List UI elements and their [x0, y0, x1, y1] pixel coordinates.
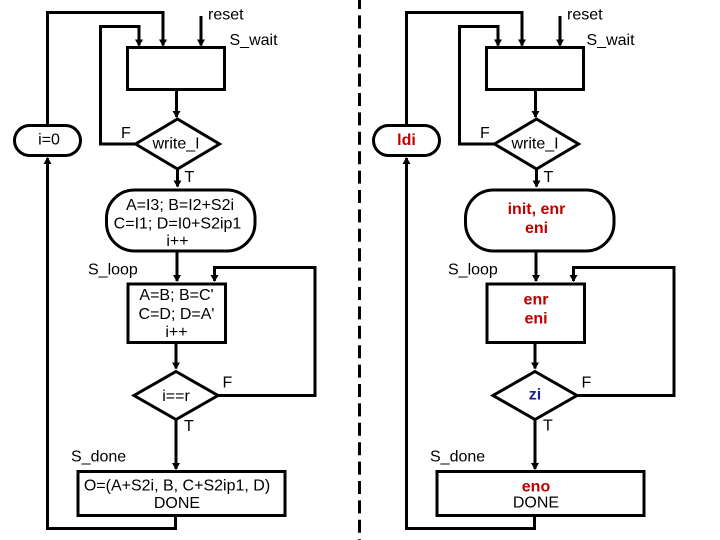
svg-text:eno: eno	[522, 479, 551, 496]
svg-text:F: F	[480, 125, 490, 142]
wire: i==r to S_done box	[175, 420, 178, 470]
decision diamond zi	[493, 372, 577, 420]
wire: zi to eno box	[534, 420, 537, 470]
wire: S_loop box to i==r	[175, 343, 178, 369]
svg-text:C=D; D=A': C=D; D=A'	[139, 306, 215, 323]
svg-text:S_wait: S_wait	[230, 32, 279, 49]
wire: reset arrow	[559, 16, 562, 46]
svg-text:F: F	[223, 375, 233, 392]
decision diamond write_I	[136, 119, 220, 169]
stadium init enr eni	[466, 190, 615, 251]
state box enr eni	[487, 284, 585, 343]
wire: F loop from write_I diamond left to S_wait top	[101, 27, 140, 145]
svg-text:T: T	[544, 169, 554, 186]
wire: reset arrow	[200, 16, 203, 46]
state box S_wait right	[487, 48, 584, 90]
svg-text:init, enr: init, enr	[508, 201, 566, 218]
stadium i=0	[15, 126, 81, 156]
wire: eno exit loop back to ldi	[407, 158, 535, 529]
state box S_loop	[128, 284, 226, 343]
svg-text:S_loop: S_loop	[448, 262, 498, 279]
wire: S_done exit loop back to i=0	[48, 158, 176, 529]
svg-text:ldi: ldi	[397, 132, 416, 149]
svg-text:i==r: i==r	[162, 388, 190, 405]
state box S_wait	[128, 48, 225, 90]
svg-text:DONE: DONE	[154, 495, 200, 512]
svg-text:reset: reset	[567, 7, 603, 24]
wire: enr box to zi diamond	[534, 343, 537, 369]
svg-text:i=0: i=0	[38, 132, 60, 149]
svg-text:F: F	[582, 375, 592, 392]
svg-text:A=I3; B=I2+S2i: A=I3; B=I2+S2i	[126, 197, 234, 214]
wire: stadium to S_loop box	[176, 251, 179, 281]
wire: write_I to init stadium	[535, 169, 538, 187]
decision diamond i==r	[134, 372, 218, 420]
svg-text:F: F	[121, 125, 131, 142]
wire: F loop from write_I diamond left to S_wait top	[460, 27, 499, 145]
svg-text:enr: enr	[524, 292, 549, 309]
wire: left loop from ldi top, up, right, down into S_wait	[407, 13, 523, 126]
svg-text:T: T	[543, 418, 553, 435]
svg-text:zi: zi	[529, 387, 541, 404]
state box S_done	[78, 472, 285, 516]
wire: S_wait to write_I	[534, 90, 537, 118]
svg-text:S_done: S_done	[430, 449, 485, 466]
svg-text:S_wait: S_wait	[587, 32, 636, 49]
wire: F loop from i==r diamond right to S_loop top	[215, 268, 316, 396]
svg-text:reset: reset	[208, 7, 244, 24]
svg-text:i++: i++	[165, 324, 187, 341]
svg-text:DONE: DONE	[513, 495, 559, 512]
wire: left loop from i=0 top, up, right, down into S_wait	[48, 13, 164, 126]
svg-text:S_done: S_done	[71, 449, 126, 466]
svg-text:O=(A+S2i, B, C+S2ip1, D): O=(A+S2i, B, C+S2ip1, D)	[84, 478, 270, 495]
stadium A=I3 init block	[107, 190, 256, 251]
svg-text:T: T	[184, 418, 194, 435]
svg-text:eni: eni	[524, 311, 547, 328]
state box eno DONE	[437, 472, 644, 516]
svg-text:write_I: write_I	[510, 136, 558, 153]
decision diamond write_I right	[495, 119, 579, 169]
svg-text:S_loop: S_loop	[88, 262, 138, 279]
wire: stadium to enr box	[535, 251, 538, 281]
svg-text:eni: eni	[525, 220, 548, 237]
wire: write_I to init stadium	[176, 169, 179, 187]
stadium ldi	[374, 126, 440, 156]
wire: S_wait to write_I	[175, 90, 178, 118]
svg-text:A=B; B=C': A=B; B=C'	[139, 287, 213, 304]
svg-text:C=I1; D=I0+S2ip1: C=I1; D=I0+S2ip1	[114, 216, 242, 233]
wire: F loop from zi diamond right to enr box top	[574, 268, 675, 396]
svg-text:T: T	[185, 169, 195, 186]
divider dashed line	[358, 0, 361, 540]
svg-text:i++: i++	[166, 233, 188, 250]
svg-text:write_I: write_I	[151, 136, 199, 153]
